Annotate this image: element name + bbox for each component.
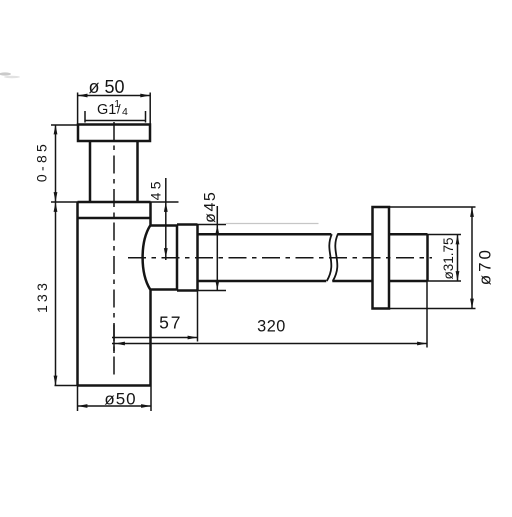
svg-text:ø70: ø70 bbox=[476, 247, 495, 285]
svg-text:ø50: ø50 bbox=[104, 390, 136, 409]
svg-text:4: 4 bbox=[122, 106, 128, 118]
svg-text:ø31.75: ø31.75 bbox=[441, 237, 456, 279]
svg-text:320: 320 bbox=[257, 318, 286, 336]
svg-text:0-85: 0-85 bbox=[33, 141, 49, 182]
svg-text:57: 57 bbox=[159, 313, 182, 333]
svg-text:ø45: ø45 bbox=[202, 191, 219, 223]
svg-text:45: 45 bbox=[148, 178, 164, 200]
svg-text:/: / bbox=[117, 102, 121, 117]
svg-text:ø 50: ø 50 bbox=[88, 77, 124, 97]
svg-text:133: 133 bbox=[34, 280, 50, 313]
